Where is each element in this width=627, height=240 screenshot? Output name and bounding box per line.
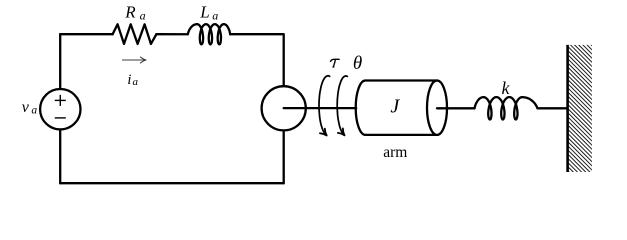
svg-text:a: a bbox=[140, 8, 146, 22]
inductor L1 (L_a) bbox=[188, 24, 230, 44]
label tau (custom glyph) bbox=[331, 59, 340, 67]
current arrow i_a bbox=[122, 57, 146, 63]
bottom wire bbox=[60, 182, 284, 184]
svg-text:arm: arm bbox=[383, 144, 407, 161]
arm cylinder J right end ellipse bbox=[427, 81, 447, 135]
wire top left segment bbox=[60, 33, 112, 35]
svg-text:J: J bbox=[390, 96, 400, 118]
wire below motor bbox=[283, 130, 285, 183]
wire resistor to inductor bbox=[156, 33, 187, 35]
svg-text:a: a bbox=[212, 8, 218, 22]
wall line bbox=[566, 45, 569, 172]
resistor R1 (R_a) bbox=[113, 24, 157, 44]
svg-text:a: a bbox=[31, 104, 37, 116]
angle arc arrow theta bbox=[337, 76, 347, 134]
wire left vertical bottom bbox=[59, 130, 61, 184]
svg-text:R: R bbox=[124, 2, 136, 21]
svg-text:i: i bbox=[127, 72, 131, 88]
svg-text:L: L bbox=[199, 2, 209, 21]
svg-text:θ: θ bbox=[353, 53, 362, 74]
wall hatched area bbox=[568, 45, 592, 172]
plus sign of source bbox=[55, 95, 66, 118]
torque arc arrow tau bbox=[319, 76, 330, 134]
motor M1 circle bbox=[262, 86, 306, 130]
svg-text:a: a bbox=[133, 76, 139, 88]
wire spring to wall bbox=[538, 107, 568, 109]
arm cylinder J left end arc bbox=[356, 81, 366, 135]
svg-text:k: k bbox=[502, 78, 511, 98]
arm cylinder J bottom edge bbox=[365, 134, 437, 136]
voltage source V1 (v_a) circle bbox=[40, 89, 80, 129]
svg-text:v: v bbox=[22, 99, 30, 116]
wire inductor to top-right corner down to motor bbox=[230, 34, 284, 86]
shaft cylinder to spring bbox=[437, 107, 475, 109]
motor shaft wire bbox=[284, 107, 357, 109]
wire left vertical top bbox=[59, 34, 61, 89]
spring K1 (k) bbox=[475, 97, 538, 119]
minus sign of source bbox=[55, 117, 66, 119]
arm cylinder J top edge bbox=[365, 79, 437, 81]
